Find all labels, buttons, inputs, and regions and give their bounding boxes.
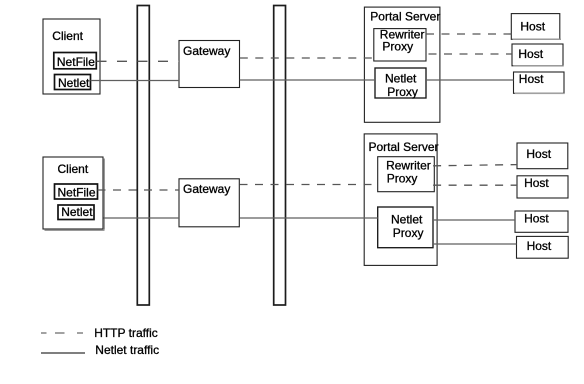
client box 1 bbox=[43, 19, 100, 94]
netfile box 2 bbox=[55, 184, 98, 199]
svg-text:Gateway: Gateway bbox=[183, 44, 230, 58]
gateway box 2 bbox=[179, 179, 239, 227]
rewriter proxy box 2 bbox=[378, 157, 435, 192]
svg-text:Host: Host bbox=[526, 147, 551, 161]
svg-text:Portal Server: Portal Server bbox=[370, 10, 440, 24]
svg-text:Host: Host bbox=[519, 72, 544, 86]
svg-text:Client: Client bbox=[58, 162, 89, 176]
portal server box 1 bbox=[364, 7, 440, 122]
svg-text:Host: Host bbox=[524, 176, 549, 190]
legend solid line bbox=[41, 352, 85, 354]
wire: Netlet solid Netlet Proxy2 to Host b3 bbox=[433, 219, 515, 221]
svg-text:Portal Server: Portal Server bbox=[369, 140, 439, 154]
svg-text:Proxy: Proxy bbox=[387, 172, 418, 186]
svg-text:Proxy: Proxy bbox=[382, 40, 413, 54]
wire: HTTP dashed NetFile2 to Gateway2 bbox=[98, 189, 180, 191]
host box 2 bbox=[512, 44, 563, 66]
wire: HTTP dashed Rewriter Proxy2 to Host b2 bbox=[433, 184, 517, 186]
host box b4 bbox=[517, 236, 569, 258]
gateway box 1 bbox=[179, 41, 240, 88]
wire: HTTP dashed NetFile1 to Gateway1 bbox=[97, 60, 180, 62]
legend dashed line bbox=[41, 332, 47, 334]
svg-text:Netlet traffic: Netlet traffic bbox=[95, 343, 159, 357]
netlet box 1 bbox=[55, 75, 91, 90]
svg-text:Netlet: Netlet bbox=[385, 72, 417, 86]
wire: HTTP dashed Gateway2 to Rewriter Proxy2 bbox=[240, 184, 378, 186]
wire: HTTP dashed Gateway1 to Rewriter Proxy1 bbox=[240, 57, 374, 59]
svg-text:Netlet: Netlet bbox=[391, 213, 423, 227]
svg-text:Rewriter: Rewriter bbox=[386, 158, 431, 172]
host box 3 bbox=[514, 72, 565, 93]
svg-text:Gateway: Gateway bbox=[183, 182, 230, 196]
netlet box 2 bbox=[58, 205, 94, 220]
firewall bar 1 bbox=[137, 6, 149, 306]
host box b3 bbox=[515, 211, 568, 232]
svg-text:Host: Host bbox=[520, 20, 545, 34]
svg-text:NetFile: NetFile bbox=[57, 55, 95, 69]
svg-text:Host: Host bbox=[518, 47, 543, 61]
svg-text:Host: Host bbox=[527, 239, 552, 253]
rewriter proxy box 1 bbox=[374, 29, 426, 61]
netlet proxy box 1 bbox=[375, 68, 426, 98]
svg-text:NetFile: NetFile bbox=[58, 185, 96, 199]
wire: Netlet solid Netlet Proxy1 to Host3 bbox=[426, 79, 514, 81]
wire: Netlet solid Netlet1 to Gateway1 bbox=[91, 80, 180, 82]
host box b1 bbox=[517, 143, 568, 169]
svg-text:Client: Client bbox=[52, 29, 83, 43]
host box b2 bbox=[517, 176, 568, 198]
netfile box 1 bbox=[54, 53, 97, 69]
client box 2 bbox=[43, 157, 103, 229]
wire: Netlet solid Gateway2 to Netlet Proxy2 bbox=[240, 217, 378, 219]
svg-text:HTTP traffic: HTTP traffic bbox=[94, 326, 158, 340]
wire: Netlet solid Client2 to Gateway2 bbox=[104, 217, 180, 219]
svg-text:Host: Host bbox=[524, 212, 549, 226]
wire: Netlet solid Gateway1 to Netlet Proxy1 bbox=[240, 79, 375, 81]
wire: HTTP dashed Rewriter Proxy1 to Host1 bbox=[426, 33, 511, 35]
firewall bar 2 bbox=[274, 6, 286, 306]
portal server box 2 bbox=[364, 134, 437, 266]
wire: Netlet solid Netlet Proxy2 to Host b4 bbox=[433, 243, 517, 245]
host box 1 bbox=[511, 14, 560, 40]
svg-text:Netlet: Netlet bbox=[61, 205, 93, 219]
svg-text:Proxy: Proxy bbox=[393, 226, 424, 240]
svg-text:Proxy: Proxy bbox=[387, 85, 418, 99]
svg-text:Netlet: Netlet bbox=[58, 76, 90, 90]
wire: HTTP dashed Rewriter Proxy1 to Host2 bbox=[429, 53, 513, 55]
netlet proxy box 2 bbox=[378, 207, 433, 248]
wire: HTTP dashed Rewriter Proxy2 to Host b1 bbox=[433, 165, 517, 166]
